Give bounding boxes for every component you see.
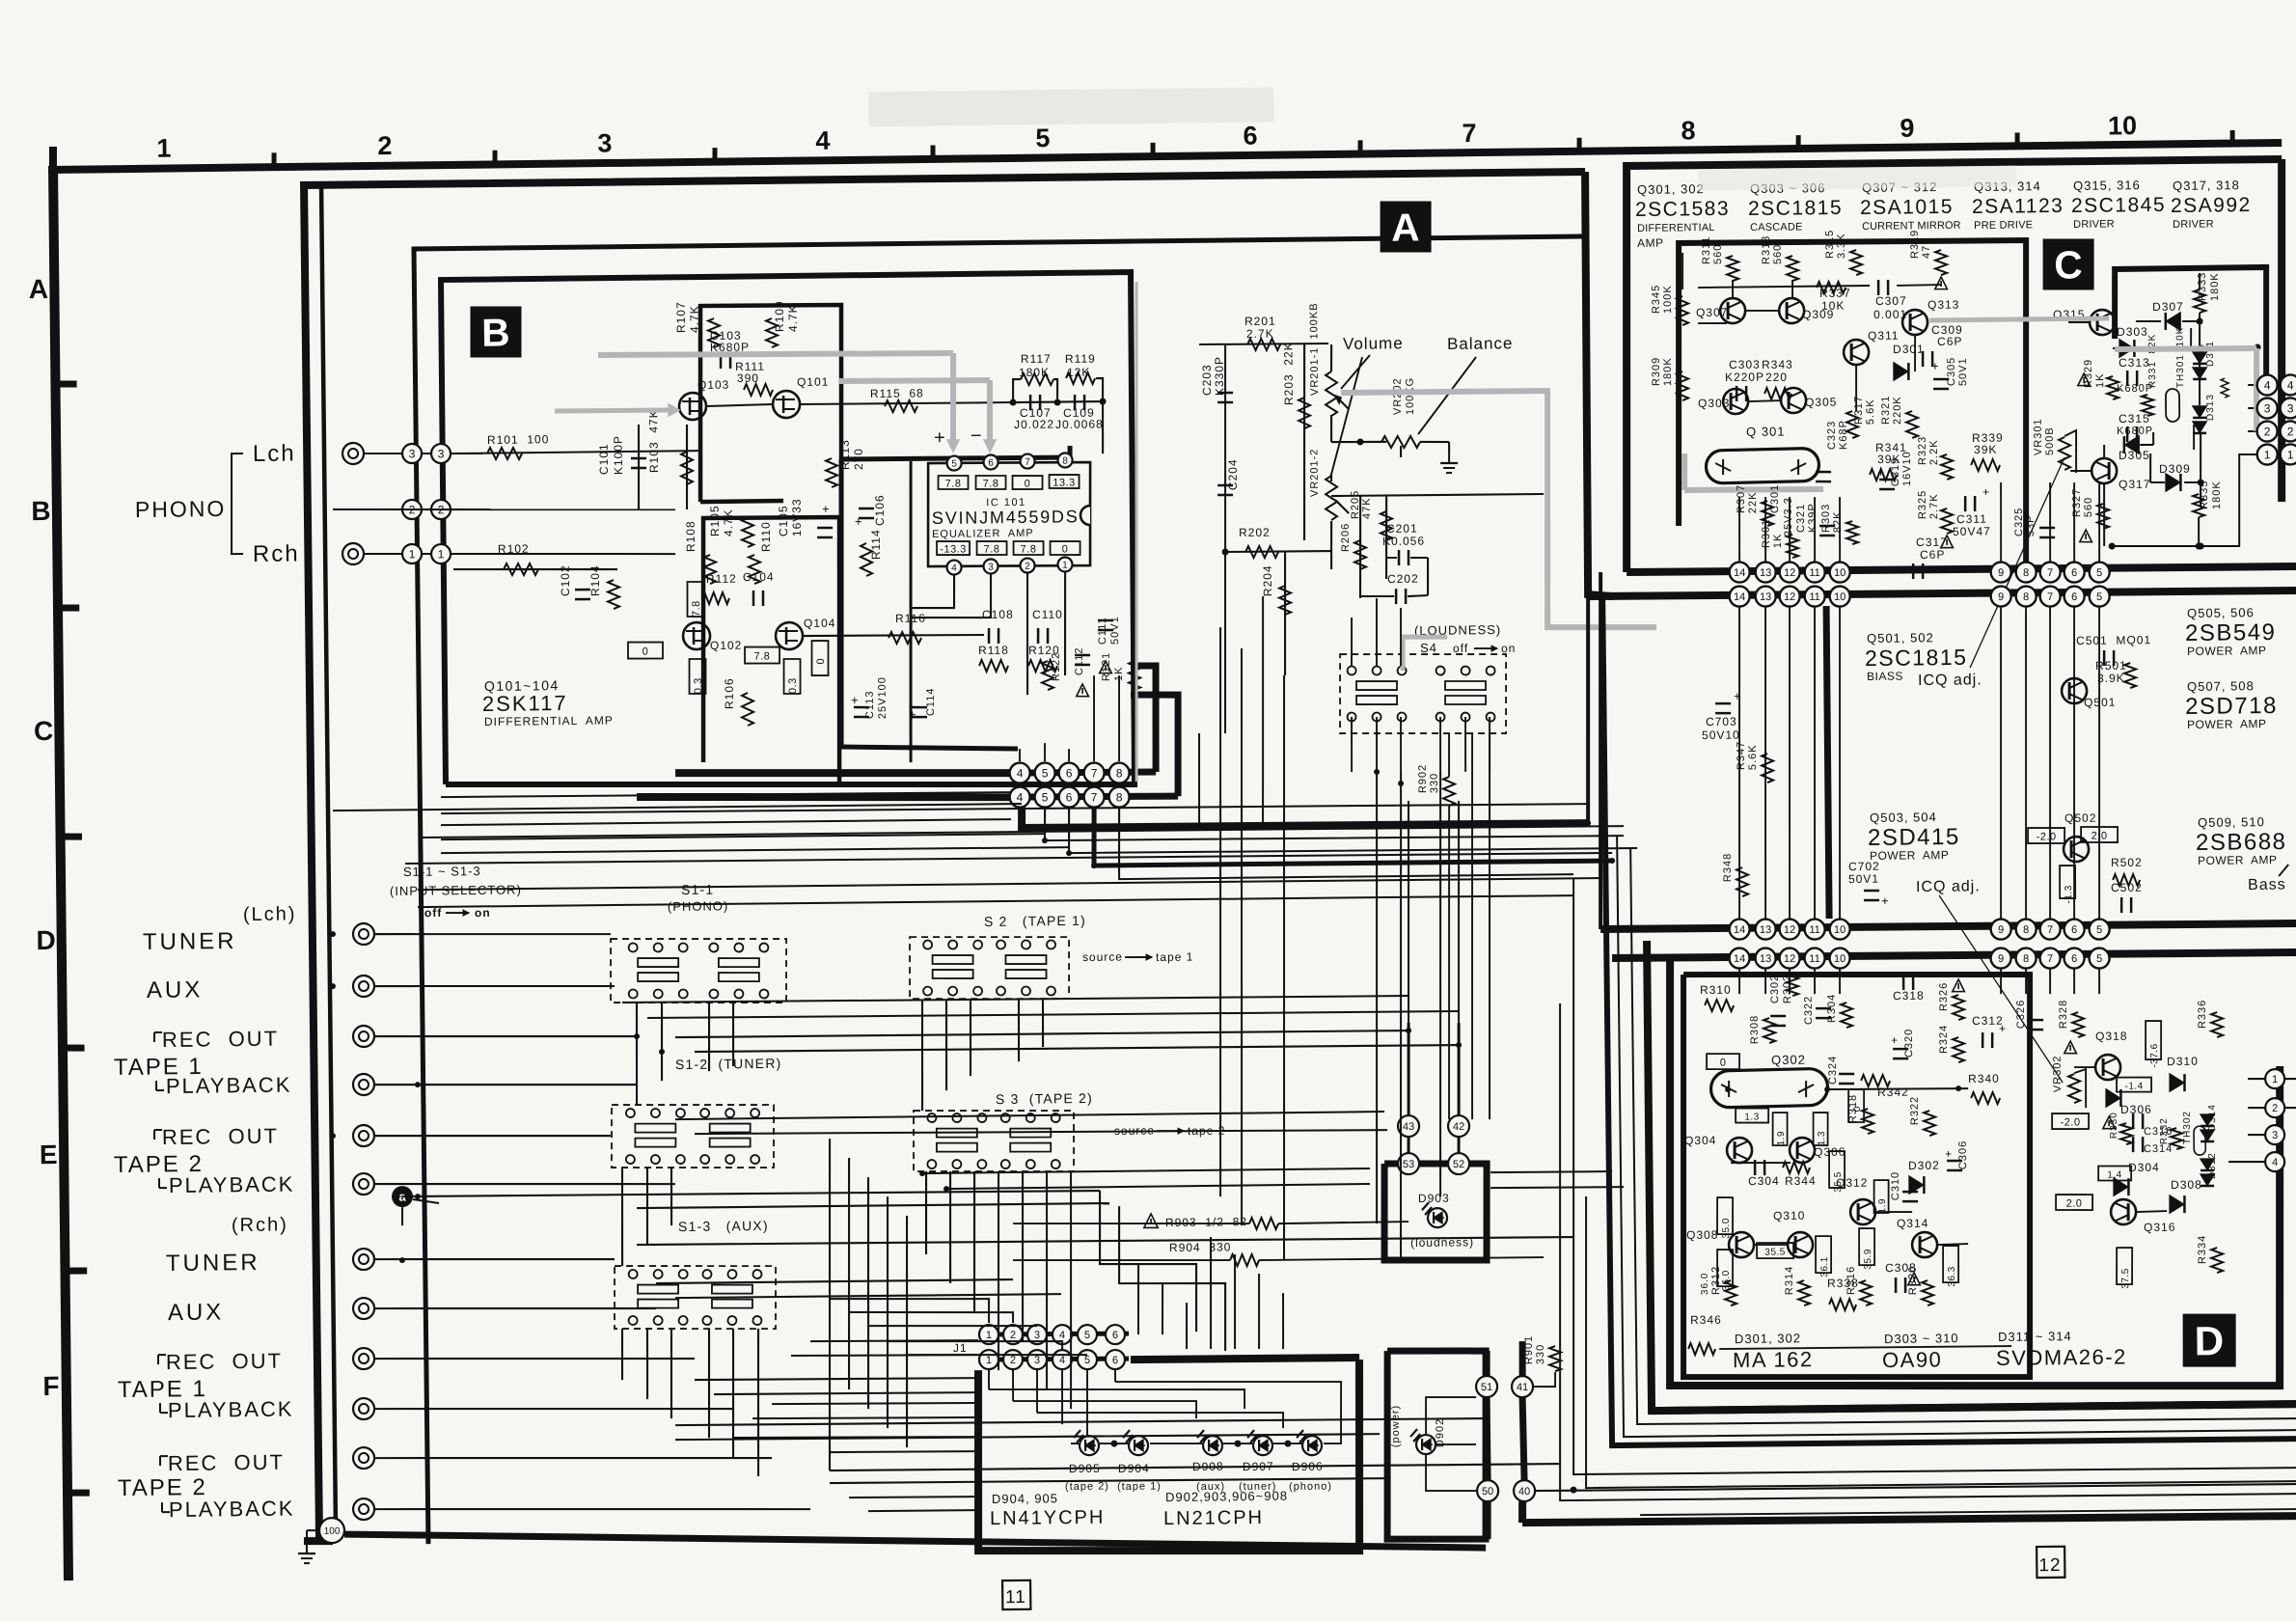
svg-text:2SK117: 2SK117 [482, 691, 568, 716]
svg-text:C6P: C6P [1937, 335, 1963, 348]
svg-text:LN21CPH: LN21CPH [1163, 1507, 1264, 1529]
svg-text:16V33: 16V33 [790, 498, 804, 536]
svg-text:R327: R327 [2071, 488, 2083, 517]
resistor R101 [487, 448, 522, 460]
bus 897 [1093, 801, 1612, 866]
svg-text:7: 7 [2047, 591, 2053, 603]
switch S1-3 aux [614, 1264, 777, 1331]
vertical drops right of B [1153, 675, 1155, 773]
svg-text:50V47: 50V47 [1953, 525, 1991, 538]
resistor R115 [885, 400, 917, 413]
svg-text:D: D [36, 925, 56, 955]
svg-text:BIASS: BIASS [1867, 670, 1903, 683]
svg-text:C319: C319 [1890, 457, 1901, 486]
scan noise top [868, 87, 1273, 126]
ruler tick [1795, 135, 1800, 150]
svg-text:R104: R104 [588, 564, 602, 596]
svg-text:PHONO: PHONO [135, 496, 227, 522]
svg-text:+: + [1999, 1022, 2007, 1035]
wire band under B 4 [418, 893, 1573, 909]
IC101 value -13.3 [937, 541, 970, 556]
svg-text:C315: C315 [2118, 412, 2150, 426]
circle 52 [1448, 1153, 1469, 1174]
gray under Q301 [1684, 488, 1823, 490]
svg-text:R310: R310 [1700, 983, 1732, 997]
bus corner v 1683 [1617, 828, 2296, 1438]
value 0.3 right [783, 659, 801, 694]
svg-text:SVDMA26-2: SVDMA26-2 [1996, 1344, 2127, 1370]
transistor Q502 [2064, 837, 2089, 862]
svg-text:D301: D301 [1893, 343, 1925, 356]
wire oval to R342 [1827, 1087, 1968, 1089]
right circle D1 [2265, 1069, 2284, 1088]
IC101 value 7.8 c [976, 541, 1006, 556]
transistor Q304 [1727, 1138, 1752, 1163]
LED wiring harness [988, 1369, 990, 1389]
svg-text:R340: R340 [1968, 1072, 2000, 1085]
thick vertical 51-50 [1484, 1397, 1491, 1480]
svg-text:R317: R317 [1853, 396, 1865, 425]
right circle 3 pair [2257, 398, 2278, 418]
svg-text:DRIVER: DRIVER [2173, 218, 2214, 230]
svg-text:180K: 180K [1662, 357, 1674, 386]
svg-text:D902: D902 [1435, 1418, 1446, 1447]
svg-text:J0.022: J0.022 [1014, 418, 1054, 431]
svg-text:SVINJM4559DS: SVINJM4559DS [932, 507, 1080, 528]
IC101 pin 7 [1021, 453, 1035, 468]
svg-text:off: off [424, 906, 442, 920]
switch S1-2 tuner [611, 1103, 775, 1169]
transistor Q312 [1850, 1199, 1875, 1224]
svg-text:C703: C703 [1706, 715, 1737, 728]
extra thin horizontals band [441, 818, 1011, 826]
warn triangle C111 [1100, 661, 1112, 673]
svg-text:C: C [34, 716, 54, 746]
svg-text:R344: R344 [1785, 1174, 1817, 1188]
transistor Q310 [1788, 1232, 1813, 1257]
thin wire above bottom rail [1640, 1507, 2296, 1517]
IC101 value 7.8 b [975, 476, 1005, 490]
IC101 pin 1 [1057, 557, 1072, 571]
ruler tick [1576, 138, 1581, 152]
svg-text:5: 5 [2096, 591, 2102, 603]
input jack 1 [353, 923, 374, 945]
phono jack Lch [342, 443, 364, 464]
phono jack Rch [342, 543, 364, 564]
svg-text:TH301 10K: TH301 10K [2174, 327, 2186, 388]
bus rows C [1626, 564, 2296, 574]
svg-text:1: 1 [438, 547, 445, 561]
svg-text:11: 11 [1809, 591, 1820, 603]
loudness to R903 drops [1372, 772, 1382, 1223]
svg-text:11: 11 [1809, 567, 1820, 579]
outer box left region [304, 171, 1600, 1541]
wire staircase right of selectors [1099, 1190, 1197, 1333]
value 0 box vert [811, 641, 829, 675]
svg-text:R202: R202 [1239, 526, 1271, 539]
D box outer [1665, 953, 2283, 1393]
input jack 7 [353, 1249, 374, 1270]
A block verticals down [1214, 627, 1227, 1196]
svg-text:+: + [855, 514, 863, 529]
page number 11 [1002, 1580, 1030, 1609]
input jack 2 [353, 975, 374, 997]
IC101 pin 6 [984, 454, 998, 469]
wire band under B 1 [441, 790, 1011, 799]
svg-text:7: 7 [1091, 790, 1098, 804]
svg-text:S4: S4 [1420, 641, 1437, 655]
IC101 pin 4 [946, 560, 961, 574]
node a [392, 1186, 413, 1207]
value 0 box left [628, 642, 663, 659]
svg-text:+: + [1734, 689, 1742, 703]
B inner box upper FET [698, 304, 844, 503]
transistor Q318 [2095, 1055, 2120, 1080]
svg-text:R904 330: R904 330 [1169, 1240, 1232, 1254]
input jack 8 [353, 1298, 374, 1319]
svg-text:R334: R334 [2197, 1235, 2208, 1264]
svg-text:D304: D304 [2128, 1161, 2160, 1174]
svg-text:100KG: 100KG [1405, 377, 1416, 415]
svg-text:2.0: 2.0 [2066, 1198, 2083, 1210]
svg-text:3: 3 [2272, 1130, 2278, 1141]
svg-text:50V1: 50V1 [1848, 872, 1879, 886]
svg-text:10: 10 [1834, 567, 1845, 579]
switch S4 loudness [1339, 652, 1507, 735]
C inner box [1676, 239, 2030, 573]
C outer box right [2278, 159, 2285, 502]
svg-text:4.7K: 4.7K [688, 305, 701, 333]
svg-text:2SA992: 2SA992 [2171, 194, 2252, 217]
right circle D4 [2265, 1152, 2284, 1171]
svg-text:S1-1: S1-1 [681, 882, 715, 897]
svg-text:8: 8 [1062, 456, 1068, 467]
svg-text:(power): (power) [1390, 1405, 1403, 1447]
svg-text:13: 13 [1760, 567, 1771, 579]
svg-text:40: 40 [1518, 1486, 1530, 1497]
gray arrow to Q103 [555, 410, 669, 412]
svg-text:-1.3: -1.3 [2064, 885, 2074, 903]
svg-text:2SC1845: 2SC1845 [2071, 194, 2166, 217]
selector outputs long runs 1 [622, 994, 1408, 1005]
svg-text:D311 ~ 314: D311 ~ 314 [1998, 1329, 2072, 1344]
svg-text:(INPUT SELECTOR): (INPUT SELECTOR) [390, 882, 522, 898]
phono bracket [231, 453, 244, 554]
svg-text:12: 12 [1784, 591, 1795, 603]
svg-text:R328: R328 [2058, 1000, 2069, 1029]
page number 12 [2036, 1547, 2064, 1578]
svg-text:R322: R322 [1909, 1096, 1921, 1125]
wire verticals below selectors [636, 1003, 638, 1105]
svg-text:R348: R348 [1722, 853, 1734, 882]
svg-text:Q507, 508: Q507, 508 [2187, 678, 2255, 694]
value 0 Q302 [1707, 1054, 1739, 1070]
value -2.0 D [2052, 1113, 2089, 1130]
svg-text:1: 1 [2264, 448, 2271, 461]
wire gate bus [706, 404, 773, 406]
svg-text:C318: C318 [1893, 989, 1925, 1003]
node 1 pair [364, 553, 482, 556]
svg-text:0: 0 [642, 646, 649, 657]
connector row C 14-10 bottom [1730, 586, 1750, 606]
svg-text:2SC1815: 2SC1815 [1748, 197, 1843, 220]
value 2.0 D [2056, 1195, 2092, 1211]
wire verticals mid column [826, 1139, 834, 1470]
svg-text:14: 14 [1734, 567, 1745, 579]
circle 53 [1398, 1153, 1419, 1174]
value 36.0 vert [1717, 1250, 1734, 1286]
svg-text:R309: R309 [1651, 357, 1662, 386]
svg-text:1.3: 1.3 [1744, 1112, 1760, 1122]
svg-text:MA 162: MA 162 [1733, 1347, 1814, 1372]
svg-text:7.8: 7.8 [984, 543, 1000, 555]
capacitor C109 [1074, 395, 1077, 410]
svg-text:5: 5 [2096, 924, 2102, 936]
bracket tape1 [153, 1032, 155, 1042]
wire R115 to caps [1013, 401, 1103, 402]
bus corner v 1631 [1567, 871, 2296, 1476]
svg-text:7.8: 7.8 [754, 650, 771, 662]
terminal 100 [319, 1518, 344, 1543]
svg-text:R321: R321 [1880, 396, 1892, 425]
svg-text:Lch: Lch [253, 440, 296, 467]
svg-text:5: 5 [1042, 790, 1049, 804]
IC pin wires down [911, 575, 955, 609]
svg-text:3: 3 [988, 563, 994, 573]
svg-text:50V1: 50V1 [1957, 357, 1969, 386]
D wires [1719, 1346, 2011, 1350]
svg-text:C: C [2054, 242, 2083, 287]
svg-text:4: 4 [1017, 766, 1024, 780]
svg-text:(tape 2): (tape 2) [1065, 1481, 1109, 1494]
ground at 100 [307, 1529, 319, 1531]
wire right vertical drops from S3 [997, 1171, 1001, 1370]
circle 51 [1476, 1376, 1497, 1397]
gray wire volume to right [1341, 389, 1656, 631]
circle 50 [1477, 1480, 1498, 1501]
fet Q103 [679, 393, 706, 420]
svg-text:DRIVER: DRIVER [2073, 218, 2115, 230]
svg-text:R902: R902 [1417, 764, 1429, 793]
svg-text:EQUALIZER AMP: EQUALIZER AMP [932, 528, 1034, 540]
svg-text:6: 6 [1066, 766, 1073, 780]
svg-text:off: off [1453, 642, 1468, 655]
svg-text:VR302: VR302 [2052, 1055, 2064, 1092]
svg-text:POWER AMP: POWER AMP [2187, 717, 2266, 731]
svg-text:+: + [1945, 1147, 1953, 1161]
wires 43 42 up [1408, 1023, 1409, 1115]
svg-text:C313: C313 [2118, 356, 2150, 370]
resistor R102 [504, 563, 538, 576]
connector row D 14-10 bottom [1729, 948, 1749, 968]
svg-text:D306: D306 [2120, 1103, 2152, 1116]
svg-text:39K: 39K [1974, 443, 1998, 456]
wire c upper [1698, 286, 1870, 288]
svg-text:Q310: Q310 [1773, 1209, 1806, 1223]
svg-text:Q315, 316: Q315, 316 [2073, 178, 2141, 193]
second box left region [414, 240, 1149, 1544]
C driver box [2114, 267, 2267, 386]
svg-text:E: E [40, 1140, 58, 1169]
svg-text:2SB549: 2SB549 [2185, 619, 2277, 646]
svg-text:25V3.3: 25V3.3 [1783, 497, 1794, 536]
svg-text:Q104: Q104 [804, 617, 836, 630]
svg-text:13: 13 [1760, 953, 1771, 965]
svg-text:Q318: Q318 [2095, 1030, 2128, 1043]
value -37.6 [2146, 1021, 2162, 1059]
bracket tape2 [153, 1130, 155, 1140]
section label B [470, 306, 521, 357]
svg-text:7.8: 7.8 [691, 600, 702, 617]
right circle stubs [2248, 1078, 2265, 1081]
value 7.8 box [745, 646, 779, 664]
capacitor C703 [1715, 702, 1731, 705]
value 1.3 vert b [1813, 1113, 1828, 1145]
wire 43 42 columns full [1405, 801, 1411, 1114]
section label C [2043, 238, 2094, 289]
svg-text:14: 14 [1734, 924, 1745, 936]
svg-text:R113: R113 [838, 439, 852, 470]
bus rows D [1600, 921, 2296, 932]
svg-text:R319: R319 [1909, 230, 1921, 259]
wire C203 vertical [1220, 344, 1229, 733]
svg-text:C102: C102 [559, 564, 572, 596]
svg-text:R331 82K: R331 82K [2147, 334, 2159, 388]
svg-text:R343: R343 [1762, 358, 1793, 371]
svg-text:8: 8 [2023, 953, 2029, 965]
svg-text:3: 3 [2264, 401, 2271, 415]
D box inner [1679, 971, 2035, 1381]
svg-text:Q502: Q502 [2064, 811, 2097, 825]
svg-text:36.1: 36.1 [1819, 1256, 1830, 1278]
right circle 2 pair [2257, 421, 2278, 441]
svg-text:2: 2 [2272, 1103, 2278, 1114]
svg-text:0: 0 [1025, 479, 1031, 490]
svg-text:F: F [42, 1371, 59, 1401]
svg-text:36.0: 36.0 [1700, 1273, 1710, 1296]
svg-text:4: 4 [1059, 1330, 1065, 1341]
svg-text:13: 13 [1760, 924, 1771, 936]
svg-text:J0.0068: J0.0068 [1055, 417, 1104, 431]
svg-text:D311: D311 [2205, 341, 2216, 367]
switch S2 tape1 [909, 935, 1069, 1001]
long wires selectors to D903 area [675, 1112, 1384, 1120]
svg-text:8: 8 [2023, 567, 2029, 579]
svg-text:Q312: Q312 [1836, 1176, 1869, 1190]
svg-text:1: 1 [156, 134, 171, 163]
svg-text:2SA1123: 2SA1123 [1972, 195, 2064, 218]
svg-text:PRE DRIVE: PRE DRIVE [1974, 219, 2033, 232]
svg-text:R115 68: R115 68 [870, 386, 924, 400]
svg-text:REC OUT: REC OUT [162, 1027, 279, 1052]
value 36.3 vert [1943, 1246, 1959, 1282]
svg-text:-1.4: -1.4 [2124, 1081, 2143, 1091]
svg-text:VR201-1 100KB: VR201-1 100KB [1308, 302, 1321, 396]
svg-text:A: A [29, 274, 49, 304]
bus 871 [1045, 800, 1624, 842]
ruler tick [2014, 133, 2019, 148]
svg-text:4: 4 [2264, 378, 2271, 392]
svg-text:2SA1015: 2SA1015 [1860, 196, 1954, 219]
svg-text:R303: R303 [1820, 504, 1832, 533]
svg-text:on: on [475, 906, 491, 920]
svg-text:DIFFERENTIAL AMP: DIFFERENTIAL AMP [484, 714, 614, 729]
svg-text:POWER AMP: POWER AMP [2187, 644, 2266, 658]
gray wire D303 right [2115, 347, 2256, 349]
selector outputs long runs 2 [647, 1008, 1459, 1020]
svg-text:ICQ adj.: ICQ adj. [1916, 878, 1981, 895]
svg-text:Q302: Q302 [1771, 1053, 1806, 1067]
value -1.3 [2060, 865, 2076, 898]
connector row 4-8 top [1011, 771, 1156, 773]
IC101 package [927, 461, 1092, 567]
input jack 9 [353, 1348, 374, 1369]
svg-text:Q311: Q311 [1868, 329, 1900, 343]
svg-text:R325: R325 [1917, 490, 1928, 519]
connector row D 9-5 bottom [1990, 948, 2010, 968]
svg-text:37.5: 37.5 [2120, 1268, 2131, 1289]
left bar tick [66, 1267, 87, 1274]
svg-text:Q313: Q313 [1927, 298, 1960, 312]
LED D908 [1203, 1436, 1222, 1455]
input jack 3 [353, 1026, 374, 1047]
svg-text:R114: R114 [869, 529, 883, 560]
svg-text:180K: 180K [2209, 272, 2221, 301]
wire trunk vertical [320, 185, 337, 1530]
value 2.0 Q502 [2081, 827, 2118, 843]
svg-text:C302: C302 [1769, 975, 1781, 1003]
svg-text:R112: R112 [706, 572, 737, 586]
svg-text:50V10: 50V10 [1702, 728, 1740, 742]
svg-text:C202: C202 [1387, 572, 1419, 586]
svg-text:R502: R502 [2111, 856, 2143, 869]
svg-text:S1-3 (AUX): S1-3 (AUX) [678, 1218, 769, 1234]
wire loudness stubs down [1351, 717, 1352, 772]
svg-text:R119: R119 [1065, 352, 1096, 366]
svg-text:S1-1 ~ S1-3: S1-1 ~ S1-3 [403, 864, 481, 879]
balance arrow [1417, 357, 1477, 434]
input jack 10 [353, 1398, 374, 1419]
svg-text:+: + [822, 502, 831, 516]
svg-text:+: + [1891, 1033, 1899, 1047]
svg-text:Q305: Q305 [1805, 396, 1838, 409]
svg-text:3: 3 [2287, 401, 2294, 415]
ICQ adj line upper [1968, 457, 2067, 668]
svg-text:51: 51 [1481, 1382, 1492, 1393]
svg-text:K680P: K680P [2117, 426, 2153, 437]
svg-text:D303 ~ 310: D303 ~ 310 [1884, 1331, 1959, 1346]
svg-text:R323: R323 [1917, 436, 1928, 465]
C outer box top [1622, 158, 2286, 572]
svg-text:Q303: Q303 [1698, 397, 1731, 410]
svg-text:R105: R105 [708, 505, 722, 536]
svg-text:8: 8 [1116, 766, 1123, 780]
svg-text:C113: C113 [864, 691, 876, 720]
svg-text:K39P: K39P [1807, 503, 1818, 533]
svg-text:3.9K: 3.9K [2097, 672, 2125, 685]
svg-text:source: source [1082, 950, 1123, 964]
svg-text:PLAYBACK: PLAYBACK [166, 1073, 292, 1099]
svg-text:Q103: Q103 [697, 378, 730, 392]
svg-text:Bass: Bass [2248, 877, 2286, 893]
svg-text:5.6K: 5.6K [1747, 744, 1759, 770]
bottom rail from 100 [344, 1521, 1486, 1560]
svg-text:8: 8 [2023, 924, 2029, 936]
wire long horizontals mid [675, 1029, 1408, 1038]
svg-text:REC OUT: REC OUT [166, 1349, 283, 1374]
svg-text:-13.3: -13.3 [940, 543, 967, 555]
svg-text:R318: R318 [1847, 1094, 1859, 1123]
